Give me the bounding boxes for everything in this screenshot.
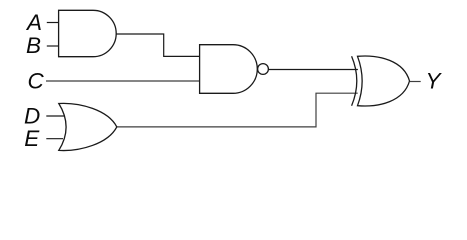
svg-text:Y: Y [426,68,443,93]
svg-text:A: A [25,10,42,35]
OR gate (inputs D,E) [59,103,117,150]
XOR gate body [358,56,410,106]
svg-text:E: E [24,126,40,151]
svg-text:C: C [28,68,45,93]
wire OR output to XOR input (elbow) [117,93,358,127]
wire D stub [46,115,64,117]
wire C [46,80,200,82]
wire NAND output to XOR input [268,69,358,71]
svg-text:D: D [24,103,40,128]
wire A stub [47,22,59,24]
wire E stub [46,138,63,140]
NAND inversion bubble [258,64,269,75]
wire AND1 output to NAND input (elbow) [116,34,199,56]
NAND gate body (inputs AB, C) [200,45,258,94]
wire XOR output to Y [410,81,421,83]
XOR input (back) curve [352,56,357,105]
AND gate (inputs A,B) [59,10,117,56]
wire B stub [47,45,59,47]
svg-text:B: B [26,33,41,58]
